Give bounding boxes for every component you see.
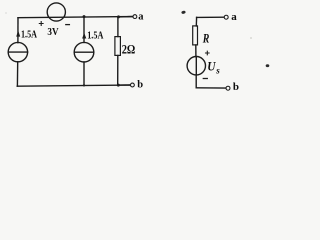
current source I1 1.5A <box>8 42 27 61</box>
current arrow I1 <box>16 30 20 36</box>
svg-text:R: R <box>202 30 210 45</box>
svg-text:s: s <box>215 66 220 76</box>
junction (I2 bottom) <box>83 84 85 86</box>
polarity + (Us) <box>206 51 210 55</box>
wire (R to source Us) <box>195 45 197 57</box>
junction (R1 top) <box>117 15 120 18</box>
top wire (right circuit) <box>197 16 225 18</box>
wire to terminal b <box>118 84 130 86</box>
polarity - (Us) <box>203 78 207 80</box>
terminal b <box>131 83 135 87</box>
svg-text:U: U <box>207 59 216 73</box>
svg-text:b: b <box>137 79 143 90</box>
svg-text:1.5A: 1.5A <box>21 29 38 40</box>
terminal b (right) <box>226 86 230 90</box>
svg-text:a: a <box>138 11 144 22</box>
polarity + (3V) <box>39 22 43 26</box>
polarity - (3V) <box>66 24 70 26</box>
resistor R <box>193 26 198 45</box>
left wire (top lead of I1) <box>17 18 19 43</box>
resistor 2ohm <box>115 37 121 56</box>
current arrow I2 <box>82 33 86 39</box>
svg-text:b: b <box>233 81 239 93</box>
voltage source Us <box>187 56 205 74</box>
terminal a <box>133 15 137 19</box>
junction (I2 top) <box>83 15 86 18</box>
top wire <box>18 17 133 18</box>
svg-text:1.5A: 1.5A <box>87 31 104 42</box>
terminal a (right) <box>224 15 228 19</box>
voltage source 3V <box>47 3 65 21</box>
wire (R1 top lead) <box>117 17 119 37</box>
wire (R top lead, right circuit) <box>195 17 197 26</box>
svg-text:2Ω: 2Ω <box>122 42 136 57</box>
current source I2 1.5A <box>74 42 94 62</box>
wire (top lead of I2) <box>83 17 85 43</box>
wire (R1 bottom lead) <box>117 55 119 85</box>
svg-text:3V: 3V <box>47 27 59 38</box>
bottom wire <box>17 85 130 86</box>
bottom wire (right circuit) <box>196 87 226 89</box>
junction (bottom right) <box>117 84 120 87</box>
wire (bottom lead of I2) <box>83 62 85 85</box>
wire (Us bottom lead) <box>195 75 197 88</box>
left wire (bottom lead of I1) <box>16 62 18 86</box>
wire to terminal a <box>119 16 133 18</box>
svg-text:a: a <box>231 11 237 23</box>
